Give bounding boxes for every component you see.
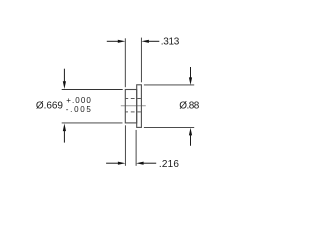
dimension Ø.88: down arrow [190, 67, 192, 80]
hidden bore line (top) [126, 98, 141, 100]
extension line: flange top edge, right of part [144, 84, 194, 86]
dimension .216: left arrow [106, 162, 119, 164]
svg-text:-.005: -.005 [66, 105, 93, 114]
dimension Ø.669: down arrow [63, 69, 65, 83]
svg-text:Ø.88: Ø.88 [179, 100, 199, 111]
extension line: flange right edge, above part [140, 38, 142, 83]
dimension .313: left arrow [107, 40, 120, 42]
hidden bore line (bottom) [126, 111, 141, 113]
dimension .313: right arrow with tail [141, 40, 149, 43]
svg-text:.313: .313 [161, 37, 180, 48]
dimension Ø.669: up arrow [63, 124, 66, 132]
extension line: body left edge, below part [124, 125, 126, 166]
extension line: body bottom edge, left of part [62, 122, 123, 124]
svg-text:Ø.669: Ø.669 [36, 100, 63, 111]
part outline: flange [137, 85, 142, 128]
dimension .216: right arrow with tail [136, 162, 144, 165]
part outline: bushing body [125, 90, 136, 123]
extension line: flange left edge, below part [135, 130, 137, 166]
centerline [121, 105, 146, 107]
svg-text:.216: .216 [159, 159, 180, 170]
extension line: flange bottom edge, right of part [144, 127, 194, 129]
extension line: body top edge, left of part [62, 89, 123, 91]
svg-text:+.000: +.000 [66, 96, 92, 105]
extension line: body left edge, above part [124, 38, 126, 87]
dimension Ø.88: up arrow [189, 128, 192, 136]
